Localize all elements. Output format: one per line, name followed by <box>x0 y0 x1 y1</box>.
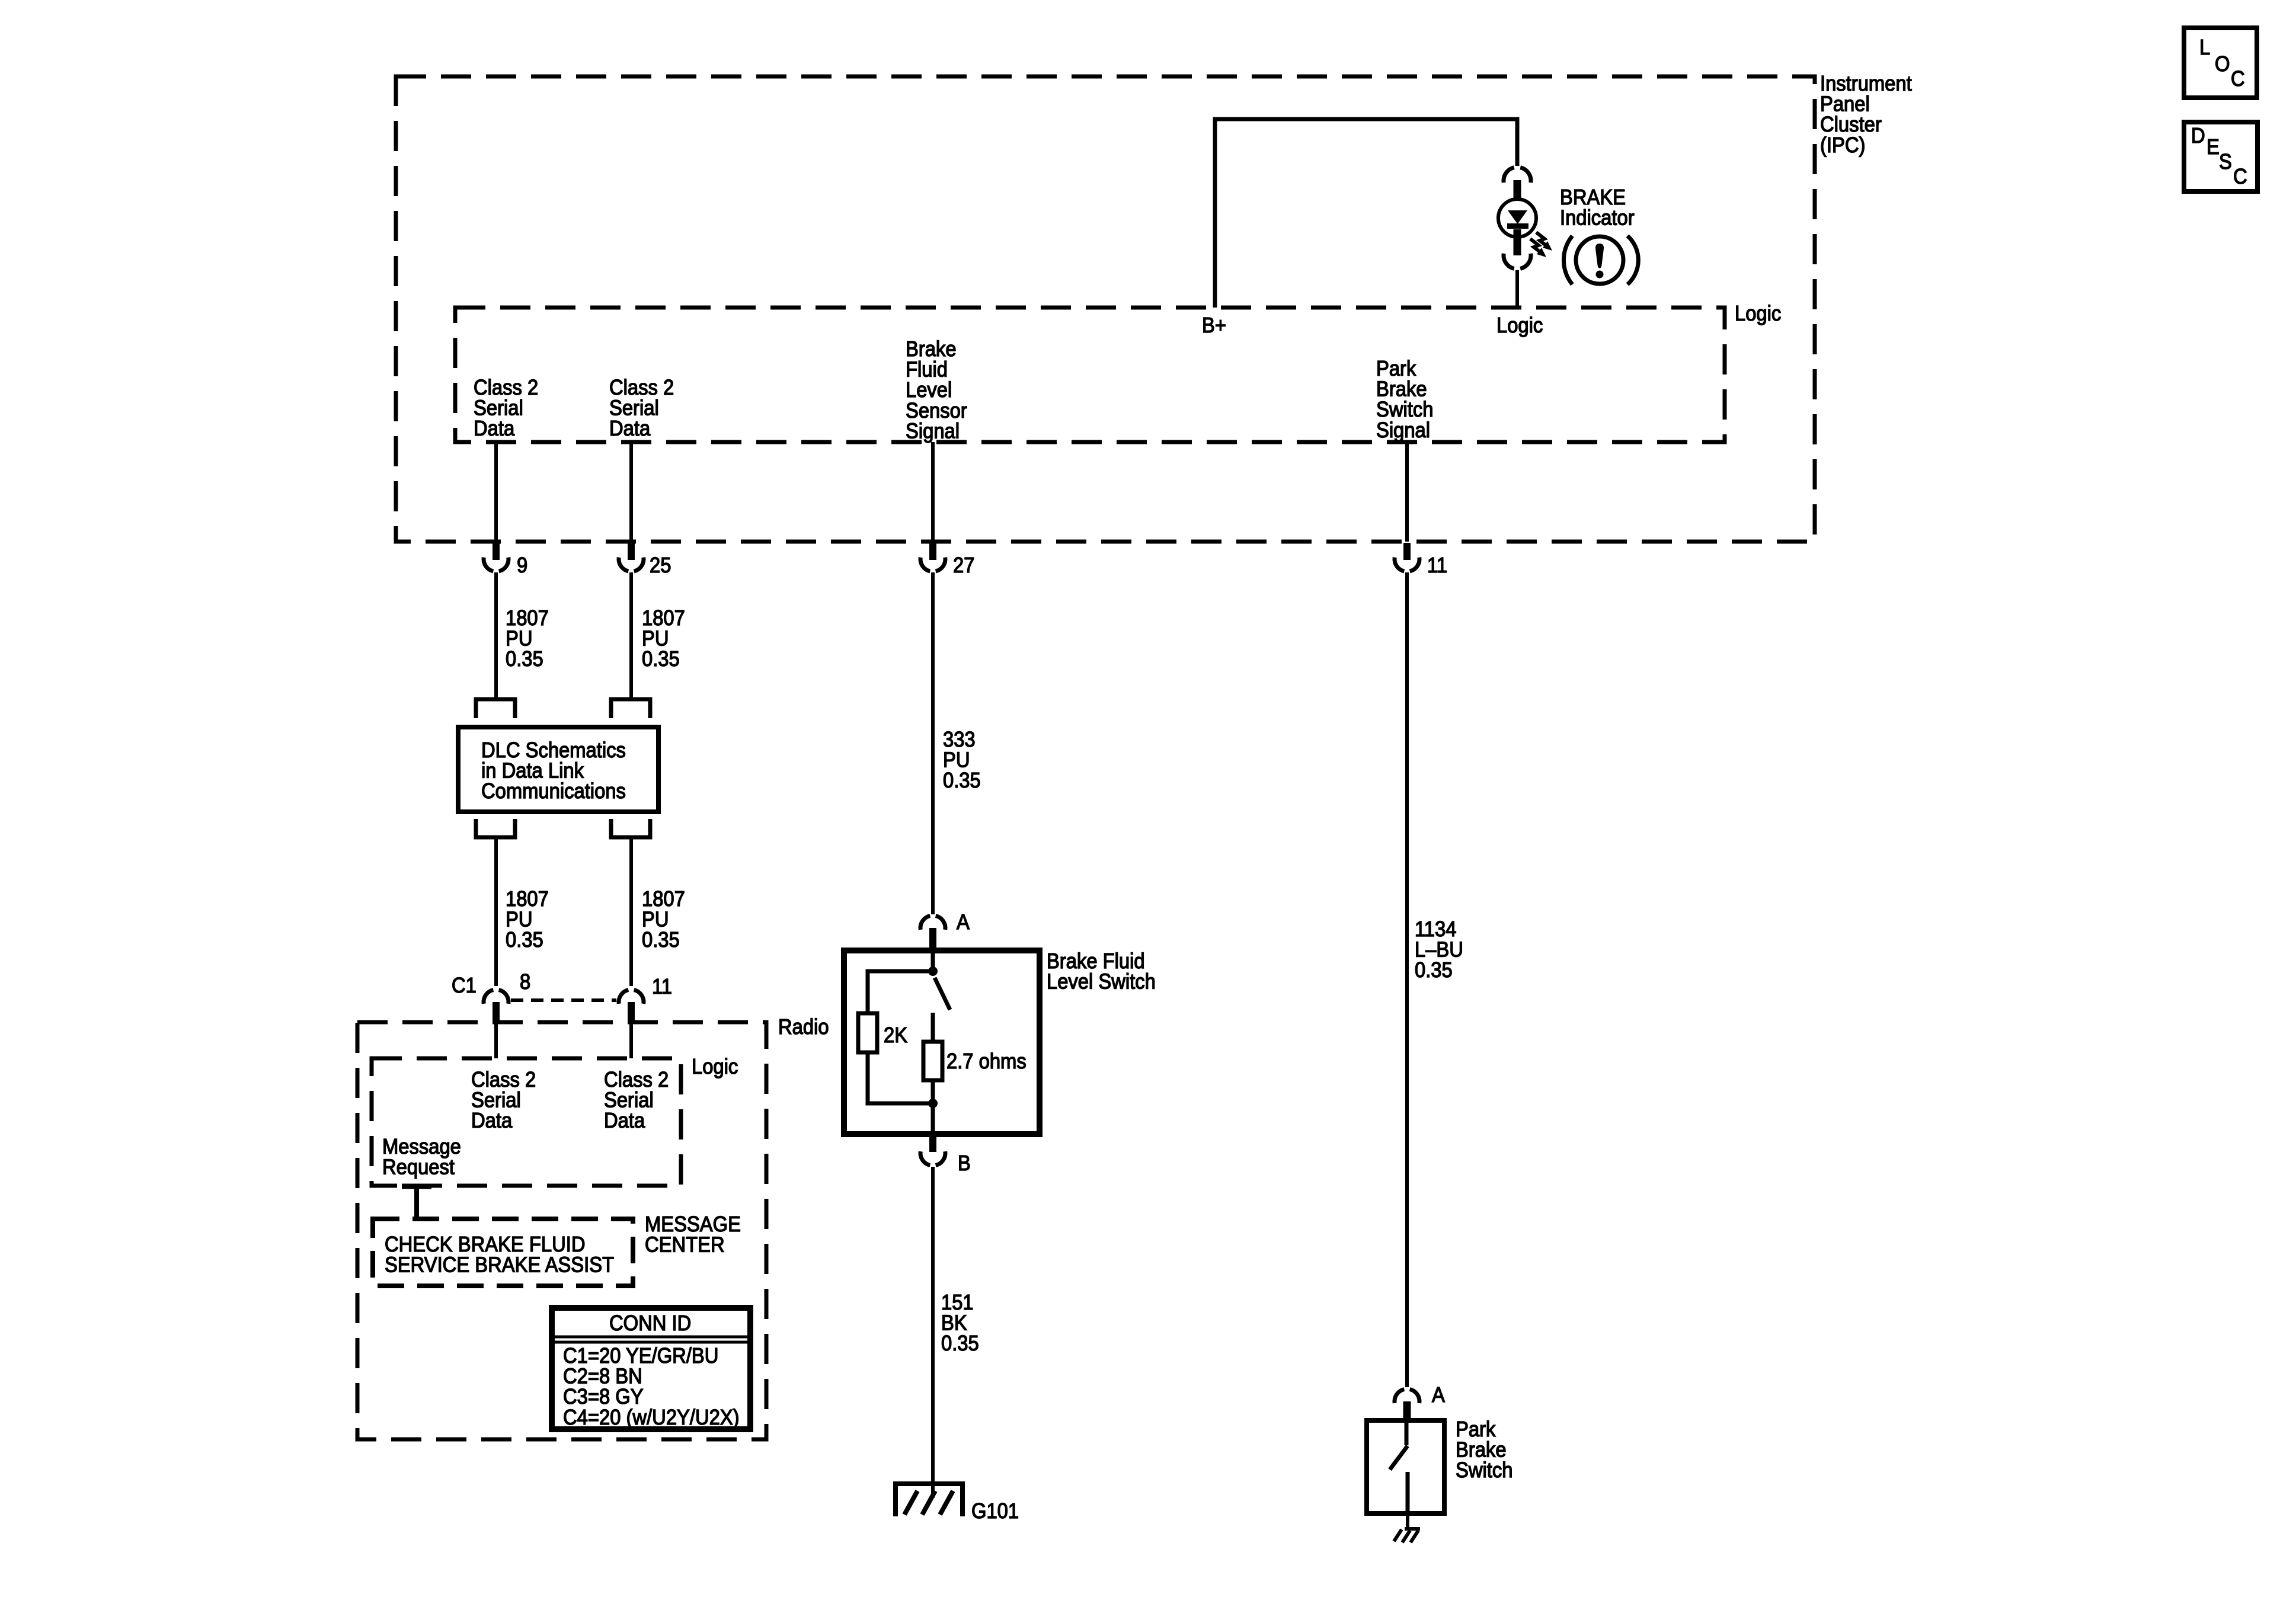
svg-text:27: 27 <box>953 554 974 578</box>
label Instrument Panel Cluster (IPC) <box>1820 72 1912 158</box>
IPC outer dashed box <box>396 76 1815 542</box>
svg-text:0.35: 0.35 <box>943 769 981 793</box>
pin A terminal stub brake fluid <box>929 928 936 952</box>
wire 2.7 ohm branch lower <box>931 1080 935 1103</box>
svg-text:11: 11 <box>1427 554 1447 578</box>
svg-text:Data: Data <box>604 1109 645 1133</box>
label Logic under lamp <box>1496 314 1543 338</box>
svg-text:Logic: Logic <box>1735 302 1781 326</box>
label Radio <box>778 1016 829 1039</box>
svg-text:G101: G101 <box>971 1500 1019 1523</box>
label 1807 PU 0.35 col1 lower <box>506 888 549 952</box>
label Logic radio <box>692 1055 738 1079</box>
svg-text:Logic: Logic <box>1496 314 1543 338</box>
pin number 25 <box>650 554 671 578</box>
LED diode triangle <box>1508 210 1527 224</box>
label BRAKE Indicator <box>1560 186 1635 230</box>
svg-text:Radio: Radio <box>778 1016 829 1039</box>
svg-text:L: L <box>2199 36 2210 60</box>
wire below 2K <box>868 1052 929 1103</box>
svg-text:Signal: Signal <box>1376 418 1430 442</box>
wire 2.7 ohm branch upper <box>931 1013 935 1042</box>
connector dome pin A park brake <box>1395 1390 1419 1403</box>
label MESSAGE CENTER <box>645 1213 741 1257</box>
wire into switch <box>931 950 935 972</box>
switch blade <box>935 978 950 1010</box>
label 1807 PU 0.35 col2 lower <box>642 888 685 952</box>
svg-text:Indicator: Indicator <box>1560 206 1635 230</box>
svg-text:9: 9 <box>517 554 527 578</box>
svg-text:Data: Data <box>471 1109 513 1133</box>
LED diode bar <box>1507 223 1528 229</box>
DESC reference box <box>2184 122 2257 191</box>
wire pin11 inside IPC <box>1405 442 1409 542</box>
label 2K <box>884 1024 907 1048</box>
IPC pin 25 connector cup <box>619 558 644 571</box>
svg-text:2K: 2K <box>884 1024 907 1048</box>
svg-text:0.35: 0.35 <box>506 929 543 952</box>
wire pin27 to switch <box>931 572 935 914</box>
lamp top terminal stub <box>1514 180 1521 201</box>
LED light arrows <box>1530 232 1552 257</box>
wire B+ vertical <box>1213 117 1217 308</box>
label 1807 PU 0.35 col1 upper <box>506 607 549 671</box>
DLC schematics box <box>458 727 658 812</box>
IPC pin 11 terminal stub <box>1403 543 1411 560</box>
pin B terminal stub <box>929 1134 936 1152</box>
wire message request <box>414 1186 419 1219</box>
Radio logic dashed box <box>372 1058 681 1186</box>
pin number 27 <box>953 554 974 578</box>
chassis ground park brake <box>1394 1529 1420 1542</box>
connector cup at lamp bottom <box>1504 254 1531 269</box>
label CONN ID <box>609 1312 691 1336</box>
park switch top contact <box>1405 1423 1409 1445</box>
label 2.7 ohms <box>946 1050 1027 1074</box>
IPC pin 27 terminal stub <box>929 543 936 560</box>
label CHECK BRAKE FLUID SERVICE BRAKE ASSIST <box>385 1233 614 1277</box>
lamp bottom terminal stub <box>1514 229 1521 255</box>
svg-text:C1: C1 <box>452 974 477 998</box>
dashed jumper between pin8 and pin11 <box>511 998 616 1002</box>
brake warning icon <box>1563 236 1638 284</box>
label 333 PU 0.35 <box>943 728 981 793</box>
wire 1807 PU upper col1 <box>494 572 498 698</box>
pin number 11 radio <box>652 975 672 999</box>
label Class 2 Serial Data pin25 <box>609 376 674 441</box>
park brake switch box <box>1367 1420 1444 1513</box>
wire 151 BK <box>931 1167 935 1498</box>
svg-text:S: S <box>2219 151 2232 174</box>
label Class 2 Serial Data radio col2 <box>604 1068 669 1133</box>
svg-text:0.35: 0.35 <box>1415 959 1453 982</box>
wire pin27 inside IPC <box>931 442 935 542</box>
LOC letters <box>2199 36 2245 91</box>
svg-text:Switch: Switch <box>1456 1459 1512 1483</box>
CONN ID table frame <box>552 1308 750 1429</box>
message center dashed box <box>373 1219 633 1286</box>
junction node top <box>928 966 938 976</box>
pin A terminal stub park brake <box>1403 1401 1411 1422</box>
svg-text:Data: Data <box>474 417 515 441</box>
pin number 9 <box>517 554 527 578</box>
label Brake Fluid Level Sensor Signal <box>906 338 967 443</box>
label Logic at inner box corner <box>1735 302 1781 326</box>
svg-text:Signal: Signal <box>906 420 960 443</box>
LOC reference box <box>2184 28 2257 98</box>
svg-text:11: 11 <box>652 975 672 999</box>
wire pin11 to park brake switch <box>1405 572 1409 1387</box>
svg-text:B: B <box>958 1152 971 1176</box>
label Class 2 Serial Data radio col1 <box>471 1068 536 1133</box>
DLC connector bracket top col1 <box>476 699 515 718</box>
svg-text:E: E <box>2207 136 2220 159</box>
svg-text:(IPC): (IPC) <box>1820 133 1865 157</box>
wire 1807 PU lower col2 <box>629 837 633 986</box>
svg-text:Level Switch: Level Switch <box>1047 970 1156 994</box>
IPC pin 27 connector cup <box>920 558 945 571</box>
CONN ID table rows <box>563 1345 740 1430</box>
connector dome C1 pin11 <box>619 990 644 1004</box>
svg-text:Logic: Logic <box>692 1055 738 1079</box>
wire lamp feed <box>1515 117 1520 166</box>
svg-text:C: C <box>2231 68 2245 91</box>
svg-text:0.35: 0.35 <box>941 1332 979 1356</box>
wire pin11 into radio <box>629 1023 633 1058</box>
IPC logic inner dashed box <box>455 308 1725 442</box>
svg-text:Data: Data <box>609 417 651 441</box>
wire pin9 inside IPC <box>494 442 498 542</box>
IPC pin 25 terminal stub <box>628 543 635 560</box>
label B+ <box>1202 314 1226 338</box>
connector cup pin B <box>920 1151 945 1165</box>
wire 1807 PU upper col2 <box>629 572 633 698</box>
wire 1807 PU lower col1 <box>494 837 498 986</box>
label Park Brake Switch Signal <box>1376 357 1433 443</box>
wire pin8 into radio <box>494 1023 498 1058</box>
connector dome C1 pin8 <box>484 990 509 1004</box>
DESC letters <box>2191 124 2247 189</box>
label Brake Fluid Level Switch <box>1047 950 1156 994</box>
svg-text:0.35: 0.35 <box>506 648 543 671</box>
wire pin25 inside IPC <box>629 442 633 542</box>
svg-text:Request: Request <box>382 1156 455 1179</box>
svg-text:CONN ID: CONN ID <box>609 1312 691 1336</box>
label G101 <box>971 1500 1019 1523</box>
label C1 <box>452 974 477 998</box>
label Message Request <box>382 1135 461 1179</box>
pin letter B <box>958 1152 971 1176</box>
svg-text:8: 8 <box>520 971 530 994</box>
wire to switch bottom <box>931 1103 935 1134</box>
svg-text:A: A <box>957 911 970 934</box>
svg-text:D: D <box>2191 124 2205 148</box>
wire 2K branch <box>868 971 929 1013</box>
svg-text:A: A <box>1432 1384 1445 1407</box>
DLC connector bracket bottom col2 <box>611 819 650 837</box>
label DLC Schematics in Data Link Communications <box>481 739 626 804</box>
message request terminal bar <box>402 1184 431 1189</box>
svg-text:O: O <box>2215 53 2230 76</box>
pin number 8 <box>520 971 530 994</box>
connector dome pin A brake fluid <box>920 916 945 930</box>
wire top bus horizontal <box>1213 117 1519 121</box>
IPC pin 9 connector cup <box>484 558 509 571</box>
pin letter A park brake <box>1432 1384 1445 1407</box>
label Park Brake Switch <box>1456 1418 1512 1483</box>
svg-text:CENTER: CENTER <box>645 1233 725 1257</box>
DLC connector bracket top col2 <box>611 699 650 718</box>
IPC pin 11 connector cup <box>1395 558 1419 571</box>
resistor 2K <box>858 1013 877 1052</box>
wire park switch to ground <box>1406 1513 1409 1529</box>
label 1134 L-BU 0.35 <box>1415 918 1463 982</box>
IPC pin 9 terminal stub <box>493 543 500 560</box>
indicator LED circle <box>1498 199 1536 237</box>
svg-text:2.7 ohms: 2.7 ohms <box>946 1050 1027 1074</box>
svg-text:C: C <box>2233 165 2247 189</box>
C1 pin11 terminal stub <box>628 1002 635 1023</box>
Radio dashed box <box>357 1022 766 1439</box>
connector dome at lamp top <box>1504 168 1531 183</box>
svg-text:SERVICE BRAKE ASSIST: SERVICE BRAKE ASSIST <box>385 1253 614 1277</box>
wire lamp to logic box <box>1515 270 1519 308</box>
svg-text:25: 25 <box>650 554 671 578</box>
ground G101 symbol <box>896 1484 962 1516</box>
pin number 11 <box>1427 554 1447 578</box>
junction node bottom <box>928 1099 938 1108</box>
C1 pin8 terminal stub <box>493 1002 500 1023</box>
brake fluid level switch box <box>844 950 1040 1134</box>
label 1807 PU 0.35 col2 upper <box>642 607 685 671</box>
svg-text:0.35: 0.35 <box>642 648 680 671</box>
resistor 2.7 ohms <box>923 1042 942 1080</box>
CONN ID header rule <box>552 1337 750 1342</box>
park switch blade <box>1390 1446 1408 1470</box>
svg-text:Communications: Communications <box>481 780 626 804</box>
svg-text:C4=20 (w/U2Y/U2X): C4=20 (w/U2Y/U2X) <box>563 1406 740 1429</box>
DLC connector bracket bottom col1 <box>476 819 515 837</box>
park switch bottom contact <box>1406 1472 1410 1513</box>
svg-text:B+: B+ <box>1202 314 1226 338</box>
pin letter A brake fluid <box>957 911 970 934</box>
label Class 2 Serial Data pin9 <box>474 376 538 441</box>
label 151 BK 0.35 <box>941 1291 979 1356</box>
svg-text:0.35: 0.35 <box>642 929 680 952</box>
